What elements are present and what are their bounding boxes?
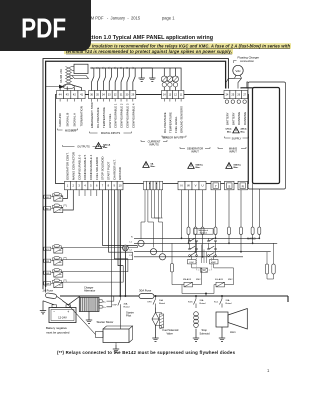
svg-text:SIGNAL A: SIGNAL A xyxy=(73,113,77,127)
ground stop solenoid xyxy=(193,334,199,341)
svg-text:INPUT: INPUT xyxy=(191,149,199,153)
svg-text:CHARGER ALT.: CHARGER ALT. xyxy=(112,159,116,180)
svg-text:KSP: KSP xyxy=(45,283,50,285)
svg-text:KMC: KMC xyxy=(228,279,233,281)
svg-text:1: 1 xyxy=(267,368,270,373)
bracket label CURRENT INPUTS xyxy=(141,140,167,147)
wires sensors to common xyxy=(158,68,181,91)
svg-text:Rated: Rated xyxy=(124,305,131,308)
svg-text:B+: B+ xyxy=(103,301,106,303)
warning 500Vac mains xyxy=(226,163,242,169)
wires aux row xyxy=(182,268,234,296)
ground digital inputs A xyxy=(139,68,145,81)
label starter motor xyxy=(97,320,114,324)
svg-text:RUNNING: RUNNING xyxy=(237,112,241,125)
wire battery minus to ground xyxy=(43,301,54,307)
svg-text:KMC: KMC xyxy=(45,208,50,210)
svg-text:KM-AUX: KM-AUX xyxy=(183,278,192,281)
current transformer CT3 xyxy=(159,222,165,260)
warning 12V/24V supply xyxy=(225,127,247,133)
wire bus to grounds xyxy=(142,67,153,69)
svg-text:GENERATOR CONT.: GENERATOR CONT. xyxy=(66,152,70,180)
terminal strip GENERATOR INPUT xyxy=(178,181,206,190)
svg-text:CONFIGURABLE 4: CONFIGURABLE 4 xyxy=(131,103,135,128)
svg-text:Max.: Max. xyxy=(196,167,201,169)
warning 500Vac generator xyxy=(188,163,204,169)
contact KM-AUX xyxy=(182,278,201,287)
label fuel solenoid valve xyxy=(163,328,179,335)
svg-text:CONFIGURABLE 4: CONFIGURABLE 4 xyxy=(89,154,93,180)
svg-text:CONFIGURABLE 1: CONFIGURABLE 1 xyxy=(114,103,118,128)
svg-text:L1: L1 xyxy=(130,241,133,243)
svg-text:insulation is recommended for: insulation is recommended for the relays… xyxy=(92,44,290,49)
svg-text:CONFIGURABLE 3: CONFIGURABLE 3 xyxy=(126,103,130,128)
wire battery plus to bus xyxy=(62,296,80,305)
fuse 30A xyxy=(139,289,154,299)
labels DIGITAL INPUT pins xyxy=(90,102,135,128)
labels MODBUS pins xyxy=(58,106,83,126)
wire battery negative routed loop xyxy=(43,59,228,289)
controller BE142 main box xyxy=(56,95,249,184)
label charger alternator xyxy=(84,286,95,293)
label horn xyxy=(230,330,236,334)
svg-text:AM PDF - January - 2015: AM PDF - January - 2015 xyxy=(88,16,141,21)
svg-text:N: N xyxy=(180,184,182,188)
svg-text:KMC: KMC xyxy=(196,279,201,281)
svg-text:SIGNAL B: SIGNAL B xyxy=(65,113,69,127)
fuel solenoid valve xyxy=(152,308,164,335)
battery 12-24V xyxy=(49,305,76,323)
svg-text:Solenoid: Solenoid xyxy=(200,331,211,335)
charger Vdc source xyxy=(233,65,243,75)
svg-text:Section 1.0 Typical AMF PANEL: Section 1.0 Typical AMF PANEL applicatio… xyxy=(82,35,213,41)
svg-text:KCC: KCC xyxy=(45,249,50,251)
ground battery xyxy=(40,307,46,314)
svg-text:Max.: Max. xyxy=(234,167,239,169)
svg-text:START PILOT: START PILOT xyxy=(107,161,111,180)
contact KC1 xyxy=(214,296,232,308)
svg-text:Max.: Max. xyxy=(241,131,246,133)
svg-text:T: T xyxy=(215,184,217,188)
wire D+ to controller xyxy=(107,296,114,307)
wires coil drops xyxy=(192,256,214,268)
wires generator input drops xyxy=(182,190,203,257)
svg-text:V: V xyxy=(195,184,197,188)
label battery negative note xyxy=(46,326,70,334)
svg-text:KGC: KGC xyxy=(189,262,194,264)
svg-text:RUNNING: RUNNING xyxy=(243,112,247,125)
svg-text:12-24V: 12-24V xyxy=(58,315,67,319)
svg-text:Valve: Valve xyxy=(167,331,174,335)
svg-text:BATTERY: BATTERY xyxy=(231,112,235,125)
svg-text:KGS: KGS xyxy=(188,302,193,304)
svg-text:terminal #24 is recommended t: terminal #24 is recommended to protect a… xyxy=(66,49,232,54)
contact KSP starter xyxy=(113,296,131,309)
remote display unit xyxy=(67,64,89,78)
wire bus L2 xyxy=(134,251,271,253)
svg-text:INPUTS: INPUTS xyxy=(149,142,159,146)
wire bus L1 xyxy=(134,242,277,244)
sensor senders xyxy=(161,76,178,91)
svg-text:LOW FUEL: LOW FUEL xyxy=(108,113,112,128)
svg-text:U: U xyxy=(201,184,203,188)
svg-text:Rated: Rated xyxy=(226,302,233,305)
svg-text:OUTPUTS: OUTPUTS xyxy=(77,145,90,149)
wires charger to supply terminals xyxy=(226,75,242,88)
wire ground pin 10 xyxy=(119,190,121,296)
wire battery positive bus xyxy=(60,296,288,302)
wires load takeoff hatch xyxy=(202,245,207,264)
svg-text:DIGITAL INPUTS: DIGITAL INPUTS xyxy=(101,132,121,135)
svg-text:500Vac: 500Vac xyxy=(234,164,242,166)
supply terminal ring lugs xyxy=(225,100,246,103)
svg-text:20A: 20A xyxy=(226,299,230,302)
svg-text:FUEL SOLENOID: FUEL SOLENOID xyxy=(95,157,99,180)
svg-text:TERMINATION: TERMINATION xyxy=(80,106,84,126)
svg-text:Fuel Solenoid: Fuel Solenoid xyxy=(163,328,179,332)
svg-text:−: − xyxy=(53,310,55,314)
svg-text:SUPPLY: SUPPLY xyxy=(232,138,242,141)
svg-text:must be grounded: must be grounded xyxy=(46,330,70,334)
cable shield ellipse xyxy=(63,84,75,89)
horn xyxy=(228,309,247,330)
wire digital inputs common bus xyxy=(92,67,159,69)
contactor KMC poles xyxy=(208,238,217,256)
relay KGS coil xyxy=(44,269,63,278)
wire stubs pins 3-4 xyxy=(79,190,97,196)
node battery positive junction xyxy=(123,245,129,296)
horn driver xyxy=(216,312,228,327)
svg-text:20A: 20A xyxy=(159,299,163,302)
svg-text:5A: 5A xyxy=(151,162,154,165)
svg-text:Rated: Rated xyxy=(200,302,207,305)
svg-text:INPUT: INPUT xyxy=(229,149,237,153)
load resistor bank xyxy=(265,243,275,279)
note highlight line 2 xyxy=(64,49,233,54)
loop fuse pills xyxy=(251,227,261,235)
relay KSP coil xyxy=(44,279,67,288)
svg-text:30A Fuse: 30A Fuse xyxy=(139,289,152,293)
svg-text:CONFIGURABLE 6: CONFIGURABLE 6 xyxy=(77,154,81,180)
bracket label MODBUS xyxy=(58,129,78,133)
ground digital inputs B xyxy=(149,68,155,81)
current transformer CT2 xyxy=(150,222,156,255)
label RS-485 LINK xyxy=(60,69,63,83)
svg-text:40A: 40A xyxy=(124,303,128,306)
ground horn xyxy=(219,327,225,341)
svg-text:MAINS CONTACTOR: MAINS CONTACTOR xyxy=(71,152,75,180)
svg-text:Starter Motor: Starter Motor xyxy=(97,320,114,324)
interlock symbol xyxy=(197,258,212,272)
svg-text:24Vdc: 24Vdc xyxy=(241,128,248,131)
svg-text:EMERGENCY STOP: EMERGENCY STOP xyxy=(90,102,94,128)
svg-text:500Vac: 500Vac xyxy=(196,164,204,166)
svg-text:GROUND: GROUND xyxy=(118,167,122,180)
svg-text:KC1: KC1 xyxy=(214,302,219,304)
starter motor machine xyxy=(68,305,132,343)
relay KCC coil xyxy=(44,245,63,254)
warning 300mA outputs xyxy=(95,143,110,149)
relay KF3 coil xyxy=(44,257,67,266)
svg-text:Horn: Horn xyxy=(230,330,236,334)
terminal strip SUPPLY xyxy=(224,91,248,99)
svg-text:Max.: Max. xyxy=(103,147,108,149)
wire bus N xyxy=(134,237,259,239)
wires output pins routed down xyxy=(103,190,138,304)
current transformer CT1 xyxy=(138,222,144,246)
svg-text:(**): (**) xyxy=(63,206,67,208)
contact KF3 xyxy=(148,296,166,308)
bracket label SENSOR INPUTS xyxy=(162,136,186,140)
bracket label OUTPUTS xyxy=(63,145,105,149)
svg-text:MODBUS: MODBUS xyxy=(65,129,76,132)
label starter pilot xyxy=(126,311,134,318)
label floating charger connection xyxy=(234,56,260,64)
svg-text:+: + xyxy=(67,310,69,314)
bracket label SUPPLY xyxy=(225,137,249,141)
bracket label DIGITAL INPUTS xyxy=(90,132,132,135)
charger alternator machine xyxy=(79,298,106,312)
svg-text:S: S xyxy=(228,184,230,188)
switch wires digital inputs xyxy=(91,67,135,90)
note highlight line 1 xyxy=(62,43,291,49)
label MAINS xyxy=(247,237,256,241)
labels SUPPLY pins xyxy=(225,112,247,125)
svg-text:KGC: KGC xyxy=(45,197,50,199)
coil KGC xyxy=(188,260,197,265)
mains fuse pills xyxy=(214,227,243,235)
labels output pins xyxy=(66,152,123,180)
wire battery supply loop thick xyxy=(241,88,280,184)
svg-text:SENSOR INPUTS: SENSOR INPUTS xyxy=(162,136,183,139)
wires lower relays to verticals xyxy=(63,246,138,283)
wires current inputs to CTs xyxy=(141,190,163,222)
svg-text:20A: 20A xyxy=(200,299,204,302)
mains pin letters T S R xyxy=(213,183,246,188)
svg-text:KF3: KF3 xyxy=(148,302,153,304)
PDF badge xyxy=(0,0,91,51)
svg-text:Alternator: Alternator xyxy=(84,289,95,293)
svg-text:12Vdc: 12Vdc xyxy=(225,129,232,131)
junction dot aux xyxy=(205,293,207,295)
junction dots bus xyxy=(119,295,223,297)
warning 5A current xyxy=(143,162,156,168)
svg-text:L2: L2 xyxy=(130,250,133,252)
ground charger alternator xyxy=(86,312,92,324)
wire running supply loop thin xyxy=(247,82,286,189)
wires mains input drops xyxy=(216,190,242,252)
svg-text:BATTERY: BATTERY xyxy=(225,112,229,125)
terminal strip OUTPUTS 1-10 xyxy=(65,181,124,190)
svg-text:(**) Relays connected to the B: (**) Relays connected to the Be142 must … xyxy=(57,350,236,355)
ground fuel solenoid xyxy=(152,334,158,341)
terminal strip CURRENT INPUTS xyxy=(144,181,163,190)
contact KGS xyxy=(188,296,206,308)
relay KGC coil xyxy=(44,193,63,202)
svg-text:Max.: Max. xyxy=(151,166,156,168)
resistor KGT lamp xyxy=(170,243,182,284)
wire battery positive routed loop xyxy=(46,61,226,287)
wires contactor columns xyxy=(190,238,216,256)
terminal strip DIGITAL INPUTS xyxy=(89,91,136,99)
svg-text:OIL PRESSURE: OIL PRESSURE xyxy=(96,107,100,128)
svg-text:CONFIGURABLE 5: CONFIGURABLE 5 xyxy=(83,154,87,180)
contactor KGC poles xyxy=(189,238,198,256)
svg-text:Max.: Max. xyxy=(227,131,232,133)
wire bus L3 xyxy=(134,256,243,258)
svg-text:W: W xyxy=(187,184,190,188)
coil KMC xyxy=(210,260,219,265)
svg-text:Stop: Stop xyxy=(202,328,208,332)
svg-text:KMC: KMC xyxy=(211,262,216,264)
svg-text:PDF: PDF xyxy=(21,13,66,44)
labels SENSOR INPUT pins xyxy=(163,106,184,133)
relay KMC coil xyxy=(44,204,67,213)
svg-text:GROUND: GROUND xyxy=(58,112,62,126)
svg-text:Vdc: Vdc xyxy=(235,69,241,73)
svg-text:OIL PRESSURE: OIL PRESSURE xyxy=(163,112,167,133)
wires loop feeds xyxy=(253,184,260,244)
wires modbus terminals to cable xyxy=(60,85,81,91)
svg-text:N: N xyxy=(131,236,133,238)
junction dots mains xyxy=(181,237,261,257)
stop solenoid coil xyxy=(194,312,199,334)
label stop solenoid xyxy=(200,328,211,335)
svg-text:CONFIGURABLE 2: CONFIGURABLE 2 xyxy=(120,103,124,128)
mechanical interlock box xyxy=(194,229,214,235)
svg-text:MAINS: MAINS xyxy=(247,237,256,241)
svg-text:FUEL LEVEL: FUEL LEVEL xyxy=(174,116,178,133)
ground starter motor xyxy=(113,343,119,353)
wires pins 1-2 to KGC KMC xyxy=(63,190,74,210)
svg-text:300mA: 300mA xyxy=(103,143,111,146)
svg-text:GROUND SENSORS: GROUND SENSORS xyxy=(180,106,184,133)
svg-text:KG-AUX: KG-AUX xyxy=(215,278,224,281)
svg-text:KSP: KSP xyxy=(113,305,118,307)
terminal strip MODBUS xyxy=(57,91,86,99)
svg-text:2A Fuse: 2A Fuse xyxy=(43,289,54,293)
labels generator bus xyxy=(130,236,134,256)
terminal strip MAINS INPUT xyxy=(211,181,248,190)
bracket label GENERATOR INPUT xyxy=(180,147,210,154)
svg-text:Interlock: Interlock xyxy=(200,232,207,235)
svg-text:page 1: page 1 xyxy=(162,16,175,21)
terminal strip SENSOR INPUTS xyxy=(162,91,184,99)
svg-text:Pilot: Pilot xyxy=(126,314,131,318)
contact KG-AUX xyxy=(214,278,233,287)
terminal stems into controller xyxy=(60,99,181,102)
fuse 2A xyxy=(43,287,63,300)
svg-text:L3: L3 xyxy=(130,255,133,257)
twisted pair cable xyxy=(66,67,72,85)
svg-text:TEMPERATURE: TEMPERATURE xyxy=(102,107,106,128)
generator fuse pills xyxy=(187,227,204,235)
shield arrow to ground wire xyxy=(46,85,64,89)
svg-text:STOP SOLENOID: STOP SOLENOID xyxy=(101,156,105,180)
svg-text:Rated: Rated xyxy=(159,302,166,305)
bracket label MAINS INPUT xyxy=(218,147,246,154)
svg-text:D+: D+ xyxy=(103,307,107,309)
svg-text:RS-485 LINK: RS-485 LINK xyxy=(60,69,63,83)
svg-text:KGS: KGS xyxy=(45,273,50,275)
svg-text:connection: connection xyxy=(240,59,254,63)
svg-text:TEMPERATURE: TEMPERATURE xyxy=(168,112,172,133)
wire strip links xyxy=(85,94,224,96)
